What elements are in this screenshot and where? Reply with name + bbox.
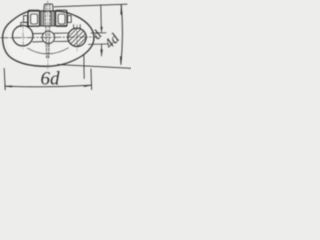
inner band line (inner top contour)	[28, 25, 67, 28]
right ear outer	[56, 10, 67, 26]
left circle vertical centerline	[22, 24, 24, 49]
dim d: upper shaft with down arrow	[100, 5, 103, 27]
left eye circle	[13, 26, 33, 46]
center joint columns	[41, 11, 44, 26]
inner bottom contour	[28, 48, 69, 54]
dim d: lower tick	[89, 43, 109, 45]
dim 4d: top extension line	[54, 4, 127, 7]
left ear outer	[28, 10, 39, 26]
stud edges left	[33, 33, 43, 42]
dim 6d: right arrowhead	[84, 85, 92, 86]
horizontal centerline	[0, 36, 97, 39]
chain link technical drawing, scanned textbook figure	[0, 0, 131, 97]
svg-text:6d: 6d	[41, 68, 61, 89]
taper pin hidden lines (converging dashes)	[45, 11, 46, 58]
left tab	[24, 16, 28, 23]
vertical centerline	[47, 1, 49, 70]
left circle top notch	[21, 22, 28, 27]
left ear inner	[31, 14, 38, 24]
dim 6d: left extension line	[4, 68, 5, 89]
right circle top ticks	[74, 25, 81, 29]
dim 6d: left arrowhead	[5, 86, 12, 87]
dim 6d: dimension line	[5, 85, 91, 87]
dim 4d: bottom extension line	[58, 65, 132, 69]
taper pin head bump	[44, 4, 53, 11]
bar section circle (crosshatched)	[68, 28, 86, 46]
dim 4d: top arrowhead	[121, 5, 122, 15]
dim 4d: dimension line	[121, 5, 123, 64]
dim d: upper tick	[91, 32, 106, 34]
outer link contour	[3, 11, 94, 66]
extension line at oval bottom right	[83, 55, 85, 79]
dim d: lower shaft with down arrow	[101, 44, 103, 52]
section circle vertical centerline	[76, 25, 78, 52]
right ear inner	[58, 14, 65, 24]
dim 6d: right extension line	[90, 69, 93, 90]
right tab	[68, 16, 72, 23]
label 6d	[41, 27, 124, 89]
section hatching	[60, 23, 97, 64]
dim 4d: bottom arrowhead	[120, 57, 121, 65]
stud middle collar	[42, 31, 54, 43]
stud edges right	[54, 33, 69, 42]
pin head inner dashes	[46, 5, 50, 11]
